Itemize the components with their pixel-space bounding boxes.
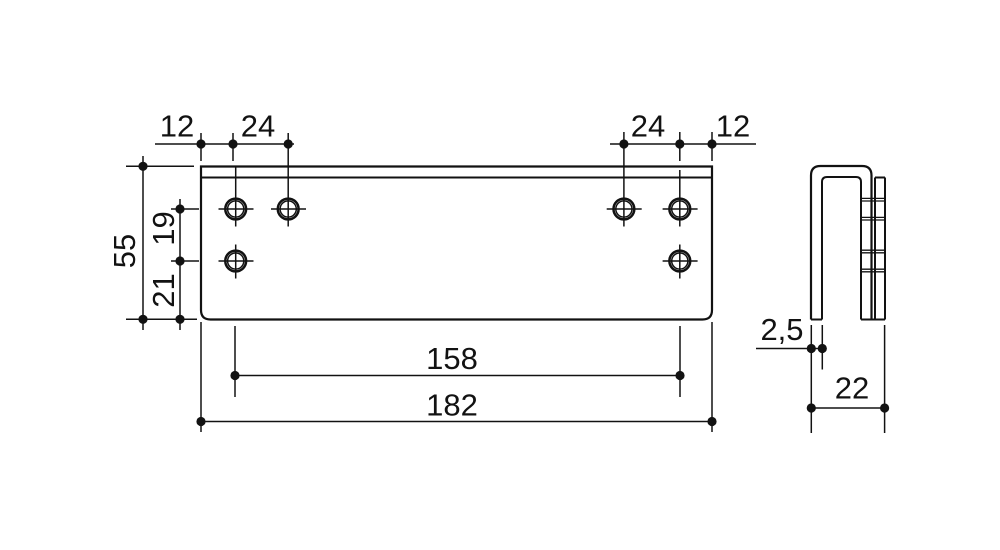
dim 55 vertical [126,156,197,330]
svg-text:55: 55 [107,234,142,268]
side view hole edge lines row1 [861,198,885,220]
svg-text:158: 158 [426,341,478,376]
plate outline [201,167,712,320]
hole H3 [607,199,642,220]
svg-text:12: 12 [160,109,194,144]
hole H6 [663,245,698,279]
dim 2,5 [756,325,822,433]
dim dot 55 top [138,162,147,171]
dim dot top-left edge [196,139,205,148]
dim line top-left [155,133,294,227]
svg-text:2,5: 2,5 [760,312,803,347]
dim dot top-left hole2 [284,139,293,148]
svg-text:22: 22 [835,371,869,406]
svg-text:21: 21 [146,273,181,307]
dim dot 22 left [807,403,816,412]
dim dot 182 left [196,417,205,426]
side view inner bend [822,177,861,320]
svg-text:24: 24 [241,109,275,144]
dim 158 horizontal [235,326,680,397]
side view left leg bottom cap [811,319,822,321]
hole H1 [219,167,254,227]
hole H5 [219,245,254,279]
dim dot 182 right [707,417,716,426]
hole H2 [271,199,306,220]
dim dot top-right hole3 [619,139,628,148]
side view plate strip [875,178,885,320]
dim dot 158 right [675,371,684,380]
side view hole edge lines row2 [861,250,885,272]
dim dot top-right edge [707,139,716,148]
dim dot 158 left [230,371,239,380]
dim dot top-left hole1 [228,139,237,148]
dim dot 19 top [175,204,184,213]
dim dot 55 bottom [138,315,147,324]
dim dot 22 right [880,403,889,412]
dim dot 19-21 middle [175,256,184,265]
dim dot 2,5 right [818,344,827,353]
svg-text:12: 12 [716,109,750,144]
side view outer bend [811,166,872,320]
side view right bottom cap [861,319,885,321]
dim line top-right [610,132,756,227]
hole H4 [663,170,698,227]
dim dot 21 bottom [175,315,184,324]
dim dot 2,5 left [807,344,816,353]
svg-text:19: 19 [146,211,181,245]
svg-text:182: 182 [426,388,478,423]
dim 19-21 vertical [171,199,199,330]
dim 22 [811,325,884,433]
bend line [201,177,712,179]
svg-text:24: 24 [631,109,665,144]
dim 182 horizontal [201,322,712,432]
dim dot top-right hole4 [675,139,684,148]
